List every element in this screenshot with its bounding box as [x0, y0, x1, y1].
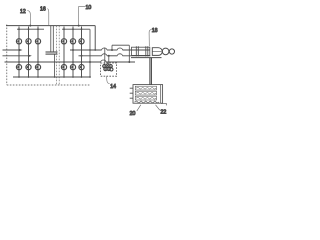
- lower breaker circles box 16: [61, 65, 84, 70]
- phase B segment: [107, 55, 117, 57]
- label 10: [86, 5, 92, 11]
- breaker dots lower: [17, 66, 82, 68]
- capacitor bottom lead: [54, 54, 56, 77]
- hop 2 phase B: [117, 54, 122, 56]
- upper breaker circles box 16: [61, 39, 84, 44]
- column 1 box 12: [18, 27, 20, 78]
- gearbox centerline: [152, 51, 161, 53]
- hop 1 phase B: [102, 54, 107, 56]
- label 18: [152, 28, 158, 34]
- machine box M1: [132, 47, 150, 55]
- squiggle row 4: [135, 101, 159, 103]
- node on bus at leader 12: [29, 25, 31, 27]
- phase C bus junction dots: [18, 61, 130, 63]
- dashed load box 14: [101, 63, 117, 76]
- hop 1 phase A: [102, 48, 107, 50]
- block inner right edge: [160, 85, 162, 104]
- squiggle row 1: [136, 87, 156, 89]
- leader for 10: [79, 6, 85, 25]
- generator circle G2: [169, 49, 174, 54]
- svg-text:16: 16: [40, 7, 46, 13]
- column 2 box 16: [72, 27, 74, 78]
- squiggle row 2: [136, 92, 156, 94]
- riser from top bus down to phase line A: [94, 26, 96, 50]
- label 12: [20, 9, 26, 15]
- label 20: [130, 111, 136, 117]
- column 2 box 12: [28, 27, 30, 78]
- arrowhead phase A: [19, 49, 23, 52]
- svg-text:12: 12: [20, 9, 26, 15]
- node phase A column tap: [72, 49, 74, 51]
- dashed left edge of box 12: [6, 25, 8, 86]
- gearbox capsule: [152, 48, 162, 56]
- node phase A jumper tap: [111, 49, 113, 51]
- generator circle G1: [162, 48, 169, 55]
- node on bus at leader 10: [78, 25, 80, 27]
- resistor block outer: [133, 85, 163, 104]
- bus phase C continued: [106, 61, 135, 63]
- label 14 leader: [107, 76, 110, 83]
- riser sub-bus box16 to buses: [89, 29, 91, 77]
- row lead stubs left: [130, 88, 133, 98]
- squiggle row 3: [136, 97, 156, 99]
- label 14: [110, 84, 116, 90]
- resistor row 1: [135, 86, 156, 90]
- sub-bus box 16: [62, 28, 90, 30]
- phase B into machine: [123, 55, 151, 57]
- dashed left edge of box 16: [58, 26, 60, 85]
- resistor row 2: [135, 91, 156, 95]
- label 16: [40, 7, 46, 13]
- leader for 18: [149, 30, 151, 47]
- jumper line top: [112, 44, 129, 46]
- label 22: [161, 110, 167, 116]
- feeder arrow phase A: [3, 49, 20, 51]
- right leader tick: [161, 103, 166, 105]
- jumper right vertical: [128, 45, 130, 62]
- bottom bus junction dots: [18, 76, 91, 78]
- main top bus: [6, 25, 95, 27]
- upper breaker circles box 12: [16, 39, 40, 44]
- leader for 12: [27, 11, 30, 26]
- hop on phase C: [101, 60, 106, 62]
- svg-text:20: 20: [130, 111, 136, 117]
- load cluster circles: [103, 64, 113, 71]
- dashed right edge of box 12: [56, 26, 58, 85]
- coupling flange pair 1: [136, 46, 138, 56]
- column 1 box 16: [63, 27, 65, 78]
- column 3 box 12: [37, 27, 39, 78]
- node riser phase A: [89, 49, 91, 51]
- leg to label 22: [156, 105, 160, 110]
- machine shaft lower line: [131, 57, 162, 59]
- column 3 box 16: [81, 27, 83, 78]
- sub-bus box 12: [17, 28, 44, 30]
- drop to load box left: [104, 48, 106, 65]
- phase line A right run: [70, 49, 102, 51]
- coupling flange pair 2: [146, 46, 148, 56]
- leader for 16: [47, 9, 48, 25]
- capacitor plate lower: [46, 53, 58, 55]
- resistor row 3: [135, 96, 156, 100]
- dashed bottom edge of boxes: [7, 84, 90, 86]
- node capacitor/bottom bus: [54, 76, 56, 78]
- svg-text:18: 18: [152, 28, 158, 34]
- svg-text:22: 22: [161, 110, 167, 116]
- node phase B drop tap: [108, 55, 110, 57]
- double drop line to resistor block: [150, 58, 152, 85]
- capacitor 16 top leads: [51, 26, 54, 52]
- svg-text:10: 10: [86, 5, 92, 11]
- bottom collector bus: [13, 76, 90, 78]
- feeder arrow phase B: [3, 55, 29, 57]
- leg to label 20: [137, 105, 141, 111]
- phase A into machine: [123, 49, 150, 51]
- jumper left vertical: [111, 45, 113, 50]
- phase A segment: [107, 49, 117, 51]
- hop 2 phase A: [117, 48, 122, 50]
- drop to load box right: [108, 56, 110, 65]
- sub-bus junction dots: [18, 28, 82, 30]
- phase line B right run: [79, 55, 102, 57]
- arrowhead phase B: [28, 55, 32, 58]
- node riser/phase A: [94, 49, 96, 51]
- bus phase C: [5, 61, 101, 63]
- svg-text:14: 14: [110, 84, 116, 90]
- node phase B column tap: [81, 55, 83, 57]
- breaker dots upper: [17, 40, 82, 42]
- lower breaker circles box 12: [16, 65, 40, 70]
- capacitor plate upper: [46, 51, 58, 53]
